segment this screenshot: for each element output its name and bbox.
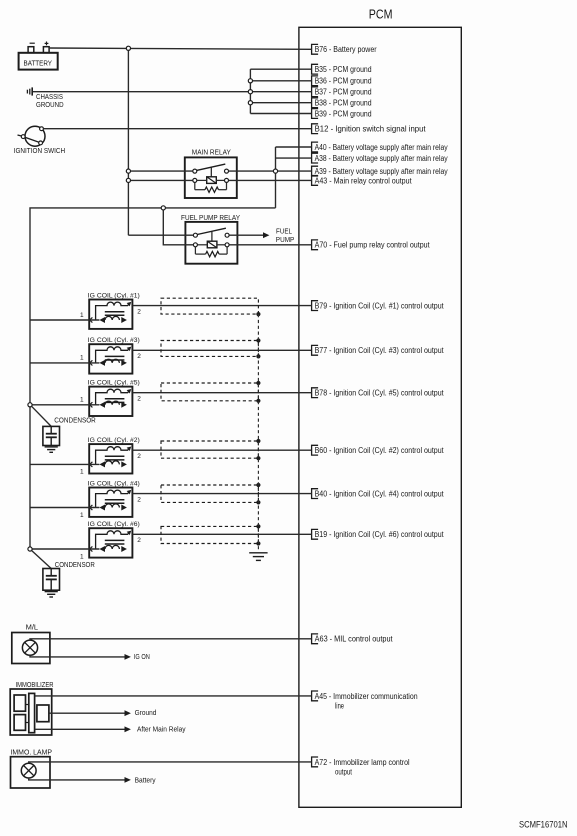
- svg-text:A38 - Battery voltage supply a: A38 - Battery voltage supply after main …: [315, 154, 448, 163]
- wire shield ground bus: [257, 314, 259, 551]
- wire to condensor 2: [32, 551, 52, 569]
- wire PCM ground bus: [249, 69, 251, 113]
- svg-text:FUEL: FUEL: [276, 228, 292, 235]
- wire fuel pump relay coil to A70: [229, 244, 311, 246]
- shield coil 4: [161, 483, 261, 505]
- main relay K1: [185, 149, 237, 198]
- wire to B35: [250, 68, 311, 70]
- svg-text:A40 - Battery voltage supply a: A40 - Battery voltage supply after main …: [315, 143, 448, 152]
- wire coil 1 terminal 1: [30, 319, 99, 321]
- pin B36: [312, 76, 372, 86]
- wire to condensor 1: [32, 406, 52, 426]
- svg-text:B39 - PCM ground: B39 - PCM ground: [315, 109, 372, 118]
- pin B76: [312, 44, 377, 54]
- node condensor 2 tap: [28, 547, 32, 551]
- shield coil 1: [161, 298, 261, 316]
- node switched bus A39: [273, 169, 277, 173]
- pin B39: [312, 109, 372, 119]
- shield coil 3: [161, 338, 261, 358]
- shield coil 6: [161, 524, 261, 545]
- svg-text:Battery: Battery: [135, 777, 156, 784]
- wire MIL to A63: [30, 639, 312, 640]
- label fuel pump: [276, 228, 295, 244]
- pin A70: [312, 240, 431, 250]
- svg-text:IG COIL (Cyl. #1): IG COIL (Cyl. #1): [88, 292, 140, 299]
- node ground bus B36: [248, 79, 252, 83]
- svg-text:B36 - PCM ground: B36 - PCM ground: [315, 77, 372, 86]
- wire coil 6 terminal 2 to PCM: [132, 533, 311, 535]
- svg-text:B19 - Ignition Coil (Cyl. #6): B19 - Ignition Coil (Cyl. #6) control ou…: [315, 530, 445, 539]
- arrow after main relay: [125, 726, 131, 732]
- svg-text:IMMO. LAMP: IMMO. LAMP: [11, 749, 53, 756]
- wire to B37: [250, 91, 311, 93]
- node battery bus switch: [126, 169, 130, 173]
- svg-text:2: 2: [137, 496, 141, 503]
- condensor C2: [43, 562, 95, 597]
- svg-text:output: output: [335, 768, 353, 777]
- wire to B39: [250, 113, 311, 115]
- svg-text:PUMP: PUMP: [276, 237, 295, 244]
- wire battery bus to main relay switch: [128, 170, 192, 172]
- svg-text:CONDENSOR: CONDENSOR: [55, 562, 95, 569]
- svg-text:CONDENSOR: CONDENSOR: [54, 417, 96, 424]
- svg-text:B35 - PCM ground: B35 - PCM ground: [315, 65, 372, 74]
- pin B35: [312, 64, 372, 74]
- svg-text:IG COIL (Cyl. #3): IG COIL (Cyl. #3): [88, 337, 140, 344]
- wire MIL to IG ON: [30, 655, 125, 657]
- PCM box U1: [299, 27, 461, 807]
- pin B12: [312, 124, 427, 134]
- pin A39: [312, 166, 448, 176]
- pin B38: [312, 98, 372, 108]
- pin B78: [312, 388, 445, 398]
- wire main relay coil to A43: [229, 179, 312, 181]
- pin A40: [312, 142, 448, 152]
- wire immo lamp to A72: [29, 762, 312, 763]
- pin B60: [312, 445, 445, 455]
- wire coil 2 terminal 1: [30, 463, 99, 465]
- wire immobilizer ground: [49, 712, 125, 714]
- wire switched supply bus: [275, 147, 277, 208]
- ignition coil T1 (Cyl. #1): [80, 292, 141, 329]
- wire coil 6 terminal 1: [30, 548, 99, 550]
- svg-text:After Main Relay: After Main Relay: [137, 727, 186, 734]
- wire chassis ground to bus: [33, 91, 250, 93]
- arrow battery: [125, 777, 131, 783]
- svg-text:CHASSIS: CHASSIS: [36, 94, 63, 101]
- svg-text:IMMOBILIZER: IMMOBILIZER: [16, 682, 54, 689]
- svg-text:B76 - Battery power: B76 - Battery power: [315, 45, 377, 54]
- wire to B38: [250, 102, 311, 104]
- svg-text:A72 - Immobilizer lamp control: A72 - Immobilizer lamp control: [315, 758, 410, 767]
- svg-text:IG COIL (Cyl. #4): IG COIL (Cyl. #4): [88, 480, 140, 487]
- svg-text:B37 - PCM ground: B37 - PCM ground: [315, 88, 372, 97]
- ignition switch S1: [14, 126, 65, 155]
- svg-text:2: 2: [137, 453, 141, 460]
- pin B79: [312, 301, 445, 311]
- pin A38: [312, 153, 448, 163]
- svg-text:A70 - Fuel pump relay control: A70 - Fuel pump relay control output: [315, 241, 431, 250]
- ignition coil T4 (Cyl. #4): [80, 480, 141, 519]
- svg-text:B60 - Ignition Coil (Cyl. #2): B60 - Ignition Coil (Cyl. #2) control ou…: [315, 446, 445, 455]
- svg-text:B77 - Ignition Coil (Cyl. #3): B77 - Ignition Coil (Cyl. #3) control ou…: [315, 346, 445, 355]
- svg-text:B12 - Ignition switch signal i: B12 - Ignition switch signal input: [315, 125, 427, 134]
- svg-text:MAIN RELAY: MAIN RELAY: [192, 149, 231, 156]
- wire to A38: [276, 157, 312, 159]
- svg-text:BATTERY: BATTERY: [24, 60, 53, 67]
- svg-text:A45 - Immobilizer communicatio: A45 - Immobilizer communication: [315, 692, 418, 701]
- pin B40: [312, 489, 445, 499]
- arrow ground: [125, 710, 131, 716]
- svg-text:IG COIL (Cyl. #2): IG COIL (Cyl. #2): [88, 437, 140, 444]
- svg-text:2: 2: [137, 396, 141, 403]
- wire ignition switch to B12: [44, 128, 312, 130]
- condensor C1: [43, 417, 96, 452]
- svg-text:2: 2: [137, 537, 141, 544]
- arrow to fuel pump: [263, 232, 269, 238]
- wire coil 3 terminal 1: [30, 362, 99, 364]
- fuel pump relay K2: [181, 215, 240, 264]
- shield coil 2: [161, 439, 261, 460]
- svg-text:GROUND: GROUND: [36, 102, 64, 109]
- svg-text:SCMF16701N: SCMF16701N: [519, 819, 568, 830]
- svg-text:B78 - Ignition Coil (Cyl. #5): B78 - Ignition Coil (Cyl. #5) control ou…: [315, 389, 445, 398]
- pin B37: [312, 87, 372, 97]
- svg-text:2: 2: [137, 308, 141, 315]
- immobilizer lamp L2: [11, 749, 53, 788]
- wire coil 2 terminal 2 to PCM: [132, 449, 311, 451]
- svg-text:1: 1: [80, 312, 84, 319]
- MIL lamp L1: [12, 625, 50, 664]
- ignition coil T3 (Cyl. #3): [80, 337, 141, 374]
- node battery bus coil: [126, 178, 130, 182]
- svg-text:A39 - Battery voltage supply a: A39 - Battery voltage supply after main …: [315, 167, 448, 176]
- node fuel pump relay tap: [161, 206, 165, 210]
- wire coil 1 terminal 2 to PCM: [132, 305, 311, 307]
- wire coil 3 terminal 2 to PCM: [132, 349, 311, 351]
- svg-text:PCM: PCM: [369, 7, 393, 22]
- wire main relay switch to A39: [229, 170, 312, 172]
- svg-text:A43 - Main relay control outpu: A43 - Main relay control output: [315, 176, 413, 185]
- node ground bus B37: [248, 90, 252, 94]
- pin B77: [312, 345, 445, 355]
- wire immobilizer to A45: [35, 695, 312, 697]
- wire to A40: [276, 146, 312, 148]
- svg-text:line: line: [335, 702, 344, 711]
- ignition coil T5 (Cyl. #5): [80, 379, 141, 416]
- node ground bus B38: [248, 101, 252, 105]
- ignition coil T6 (Cyl. #6): [80, 521, 141, 560]
- svg-text:2: 2: [137, 353, 141, 360]
- wire to B36: [250, 80, 311, 82]
- wire immo lamp to battery: [29, 778, 125, 780]
- svg-text:IG COIL (Cyl. #5): IG COIL (Cyl. #5): [88, 379, 140, 386]
- wire fuel pump relay switch output: [229, 234, 263, 236]
- svg-text:1: 1: [80, 469, 84, 476]
- svg-text:IG ON: IG ON: [134, 654, 150, 661]
- pin A72: [312, 757, 410, 777]
- pin A45: [312, 691, 418, 711]
- ground shield bus: [249, 553, 267, 561]
- svg-text:1: 1: [80, 397, 84, 404]
- svg-text:B38 - PCM ground: B38 - PCM ground: [315, 99, 372, 108]
- wire switched supply distribution: [30, 208, 276, 549]
- wire coil 4 terminal 1: [30, 507, 99, 509]
- svg-text:Ground: Ground: [135, 710, 157, 717]
- svg-text:M/L: M/L: [26, 625, 39, 632]
- immobilizer U2: [10, 682, 53, 735]
- node condensor 1 tap: [28, 403, 32, 407]
- pin B19: [312, 529, 445, 539]
- wire battery bus to main relay coil: [128, 179, 192, 181]
- wire battery to B76: [49, 48, 312, 49]
- wire coil 5 terminal 1: [30, 404, 99, 406]
- svg-text:B40 - Ignition Coil (Cyl. #4): B40 - Ignition Coil (Cyl. #4) control ou…: [315, 490, 445, 499]
- ignition coil T2 (Cyl. #2): [80, 437, 141, 476]
- wire coil 4 terminal 2 to PCM: [132, 493, 311, 495]
- wire tap to fuel pump relay coil: [163, 210, 193, 245]
- svg-text:1: 1: [80, 553, 84, 560]
- chassis ground: [27, 87, 63, 109]
- pin A43: [312, 176, 413, 186]
- node battery junction: [126, 46, 130, 50]
- svg-text:A63 - MIL control output: A63 - MIL control output: [315, 635, 394, 644]
- svg-text:IG COIL (Cyl. #6): IG COIL (Cyl. #6): [88, 521, 140, 528]
- wire coil 5 terminal 2 to PCM: [132, 392, 311, 394]
- wire immobilizer after main relay: [35, 728, 125, 730]
- svg-text:B79 - Ignition Coil (Cyl. #1): B79 - Ignition Coil (Cyl. #1) control ou…: [315, 302, 445, 311]
- wire battery bus to fuel pump relay switch: [128, 234, 193, 236]
- svg-text:IGNITION SWICH: IGNITION SWICH: [14, 148, 65, 155]
- svg-text:1: 1: [80, 355, 84, 362]
- wire battery bus: [127, 51, 129, 236]
- pin A63: [312, 634, 394, 644]
- arrow IG ON: [125, 654, 131, 660]
- battery B1: [19, 42, 58, 70]
- svg-text:1: 1: [80, 512, 84, 519]
- shield coil 5: [161, 381, 261, 403]
